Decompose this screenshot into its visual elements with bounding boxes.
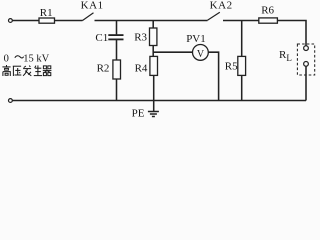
svg-text:KA1: KA1 xyxy=(81,0,104,11)
svg-text:V: V xyxy=(197,49,205,60)
svg-text:C1: C1 xyxy=(95,32,108,44)
svg-text:R4: R4 xyxy=(135,62,148,74)
svg-text:PE: PE xyxy=(132,108,145,120)
svg-text:PV1: PV1 xyxy=(186,33,206,45)
svg-text:L: L xyxy=(286,53,292,63)
svg-text:R5: R5 xyxy=(225,61,238,73)
svg-text:15 kV: 15 kV xyxy=(23,53,49,64)
svg-text:KA2: KA2 xyxy=(210,0,233,11)
svg-text:R6: R6 xyxy=(261,5,274,17)
svg-text:R1: R1 xyxy=(40,7,53,19)
svg-text:R2: R2 xyxy=(97,62,110,74)
svg-text:R3: R3 xyxy=(134,31,147,43)
svg-text:0: 0 xyxy=(4,53,9,64)
